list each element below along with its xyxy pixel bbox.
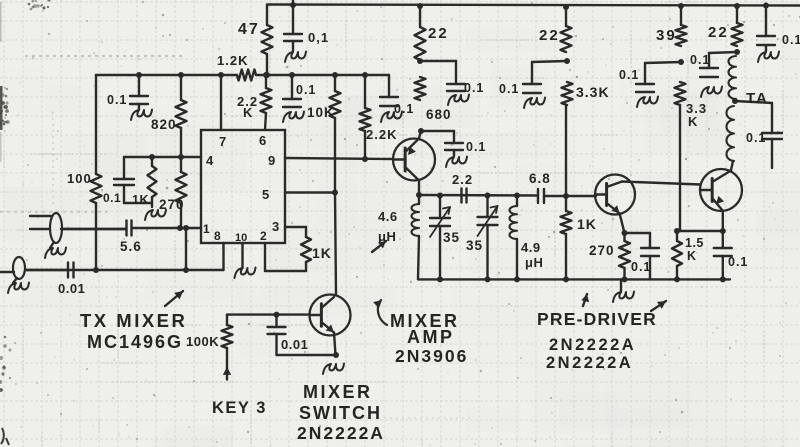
svg-text:PRE-DRIVER: PRE-DRIVER bbox=[537, 309, 657, 329]
svg-text:0.1: 0.1 bbox=[690, 53, 710, 67]
svg-text:TA: TA bbox=[746, 90, 769, 107]
svg-text:9: 9 bbox=[268, 153, 275, 168]
svg-text:1: 1 bbox=[203, 222, 210, 236]
svg-text:3.3K: 3.3K bbox=[576, 84, 610, 100]
svg-text:2N2222A: 2N2222A bbox=[549, 336, 636, 354]
svg-text:0.1: 0.1 bbox=[107, 93, 127, 107]
svg-text:4.6: 4.6 bbox=[378, 209, 398, 224]
svg-text:47: 47 bbox=[238, 21, 260, 38]
svg-text:K: K bbox=[687, 249, 697, 263]
svg-text:0.1: 0.1 bbox=[466, 140, 486, 154]
svg-text:0.01: 0.01 bbox=[58, 281, 85, 296]
svg-text:6.8: 6.8 bbox=[529, 171, 551, 186]
svg-text:2.2K: 2.2K bbox=[366, 127, 397, 142]
svg-text:0.1: 0.1 bbox=[464, 81, 484, 95]
svg-text:100K: 100K bbox=[186, 334, 219, 349]
svg-text:3: 3 bbox=[272, 219, 279, 234]
svg-text:K: K bbox=[688, 114, 698, 129]
svg-text:22: 22 bbox=[708, 24, 729, 41]
svg-text:0.01: 0.01 bbox=[281, 337, 308, 352]
svg-text:1K: 1K bbox=[132, 193, 149, 207]
svg-text:1.5: 1.5 bbox=[685, 236, 704, 250]
svg-text:0.1: 0.1 bbox=[103, 191, 121, 205]
svg-text:4: 4 bbox=[206, 153, 214, 168]
svg-text:SWITCH: SWITCH bbox=[299, 403, 382, 423]
svg-text:KEY 3: KEY 3 bbox=[212, 399, 267, 417]
svg-text:1K: 1K bbox=[312, 245, 332, 261]
svg-text:1.2K: 1.2K bbox=[217, 53, 248, 68]
svg-text:0.1: 0.1 bbox=[619, 68, 639, 82]
svg-text:0.1: 0.1 bbox=[499, 82, 519, 96]
svg-text:0.1: 0.1 bbox=[746, 131, 766, 145]
svg-text:μH: μH bbox=[378, 229, 396, 244]
svg-text:22: 22 bbox=[539, 27, 560, 44]
svg-text:1K: 1K bbox=[577, 216, 597, 232]
svg-text:AMP: AMP bbox=[407, 327, 455, 347]
svg-text:0.1: 0.1 bbox=[782, 33, 800, 47]
svg-text:TX MIXER: TX MIXER bbox=[80, 310, 187, 331]
svg-text:35: 35 bbox=[466, 238, 483, 253]
svg-text:7: 7 bbox=[219, 134, 226, 149]
svg-text:0,1: 0,1 bbox=[308, 30, 329, 45]
svg-text:270: 270 bbox=[159, 197, 185, 212]
svg-text:5: 5 bbox=[262, 187, 269, 202]
svg-text:0.1: 0.1 bbox=[394, 102, 414, 116]
svg-text:270: 270 bbox=[589, 243, 615, 258]
svg-text:2N3906: 2N3906 bbox=[395, 346, 468, 366]
svg-text:0.1: 0.1 bbox=[631, 260, 651, 274]
svg-text:4.9: 4.9 bbox=[521, 240, 541, 255]
svg-text:MIXER: MIXER bbox=[303, 382, 373, 402]
svg-text:2N2222A: 2N2222A bbox=[297, 423, 385, 443]
svg-text:10K: 10K bbox=[307, 105, 335, 120]
svg-text:0.1: 0.1 bbox=[728, 255, 748, 269]
svg-text:6: 6 bbox=[259, 133, 266, 148]
svg-text:2: 2 bbox=[260, 229, 267, 243]
svg-text:820: 820 bbox=[151, 117, 177, 132]
svg-text:MC1496G: MC1496G bbox=[87, 332, 183, 352]
svg-text:22: 22 bbox=[428, 25, 449, 42]
svg-text:K: K bbox=[243, 105, 253, 120]
svg-text:2.2: 2.2 bbox=[452, 172, 473, 187]
svg-text:39: 39 bbox=[656, 27, 677, 44]
svg-text:100: 100 bbox=[67, 171, 92, 186]
svg-text:8: 8 bbox=[214, 229, 221, 243]
svg-text:2N2222A: 2N2222A bbox=[546, 354, 633, 372]
svg-text:0.1: 0.1 bbox=[296, 83, 316, 97]
svg-text:680: 680 bbox=[426, 107, 452, 122]
svg-text:μH: μH bbox=[525, 255, 543, 270]
svg-text:35: 35 bbox=[443, 230, 460, 245]
svg-text:10: 10 bbox=[235, 232, 247, 244]
svg-text:5.6: 5.6 bbox=[120, 239, 142, 254]
